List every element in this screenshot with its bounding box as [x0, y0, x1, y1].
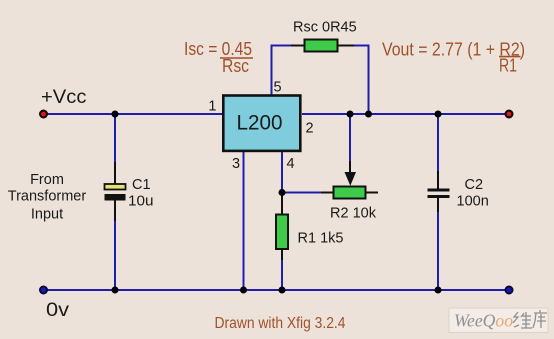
svg-text:Drawn with Xfig 3.2.4: Drawn with Xfig 3.2.4	[215, 315, 346, 332]
wire pin5 to Rsc	[272, 46, 293, 96]
pin 2 label	[306, 121, 314, 137]
svg-text:3: 3	[232, 156, 240, 172]
pin 5 label	[274, 79, 282, 95]
svg-text:0v: 0v	[46, 299, 69, 321]
svg-text:C1: C1	[132, 177, 151, 193]
op-amp regulator U1 L200 body	[223, 96, 300, 151]
pin 3 label	[232, 156, 240, 172]
svg-text:+Vcc: +Vcc	[41, 86, 87, 108]
formula Vout	[382, 39, 525, 76]
wiper arrow into R2	[345, 172, 357, 186]
wire output rail pin2	[302, 113, 509, 115]
wire C1 lead top (black)	[114, 162, 116, 184]
wire pin4 junction to R2	[282, 192, 322, 194]
capacitor C2 top plate	[428, 189, 450, 192]
wire C2 lead top (black)	[437, 171, 439, 189]
node junction pin3 bottom	[240, 287, 247, 294]
svg-text:L200: L200	[237, 112, 283, 135]
node label +Vcc	[41, 86, 87, 108]
terminal 0v right (blue)	[506, 287, 513, 294]
resistor R1 body	[276, 215, 288, 250]
wire C2 branch upper	[437, 114, 439, 172]
wire Rsc left lead (black)	[291, 45, 305, 47]
svg-text:From: From	[30, 172, 64, 188]
wire wiper lead (black)	[349, 161, 351, 176]
node junction Rsc right top	[365, 111, 372, 118]
svg-text:R1: R1	[499, 54, 517, 75]
caption Drawn with Xfig	[215, 315, 346, 332]
wire R1 top lead (black)	[281, 193, 283, 215]
wire C2 branch lower	[437, 212, 439, 290]
pin 1 label	[208, 99, 216, 115]
wire C1 branch lower	[114, 221, 116, 290]
terminal Vout output (red)	[506, 111, 513, 118]
wire pin3 vertical	[243, 152, 245, 290]
formula Isc	[184, 38, 253, 76]
wire R2 right lead (black)	[365, 192, 378, 194]
node junction C1 top	[112, 111, 119, 118]
capacitor C1 top plate (yellow)	[105, 184, 126, 190]
wire R2 left lead (black)	[321, 192, 334, 194]
pin 4 label	[287, 156, 295, 172]
note From Transformer Input	[8, 172, 87, 223]
svg-text:Transformer: Transformer	[8, 189, 87, 205]
wire bottom rail 0v	[43, 289, 509, 291]
wire R1 bottom lead (black)	[281, 249, 283, 261]
svg-text:R1 1k5: R1 1k5	[298, 231, 344, 247]
node junction pin4 R2 R1	[279, 189, 286, 196]
capacitor C2 bottom plate	[428, 195, 450, 198]
wire pin2 drop to R2 wiper	[349, 114, 351, 162]
svg-text:2: 2	[306, 121, 314, 137]
node junction C2 top	[435, 111, 442, 118]
wire R1 to bottom rail	[281, 260, 283, 290]
node junction C1 bottom	[112, 287, 119, 294]
potentiometer R2 body	[334, 187, 366, 199]
svg-text:WeeQoo: WeeQoo	[454, 311, 513, 331]
resistor Rsc value label	[293, 20, 357, 36]
svg-text:C2: C2	[465, 177, 484, 193]
svg-text:1: 1	[208, 99, 216, 115]
node label 0v	[46, 299, 69, 321]
wire Rsc to output rail	[354, 46, 369, 115]
potentiometer R2 label	[330, 206, 377, 222]
terminal +Vcc input (red)	[40, 111, 47, 118]
wire pin4 vertical	[281, 152, 283, 193]
watermark CJK 维库	[513, 310, 547, 328]
svg-text:5: 5	[274, 79, 282, 95]
resistor Rsc body	[305, 40, 338, 52]
wire C1 branch upper	[114, 114, 116, 163]
capacitor C1 bottom plate (black)	[105, 194, 126, 201]
terminal 0v left (blue)	[40, 287, 47, 294]
svg-text:100n: 100n	[457, 194, 489, 210]
capacitor C2 labels	[457, 177, 489, 210]
svg-text:R2 10k: R2 10k	[330, 206, 377, 222]
node junction R1 bottom	[279, 287, 286, 294]
wire C2 lead bottom (black)	[437, 198, 439, 213]
capacitor C1 labels	[128, 177, 154, 210]
svg-text:Input: Input	[31, 207, 63, 223]
svg-text:10u: 10u	[128, 194, 154, 210]
node junction C2 bottom	[435, 287, 442, 294]
wire top rail +Vcc	[43, 113, 222, 115]
svg-text:Rsc: Rsc	[222, 55, 249, 76]
node junction wiper top	[347, 111, 354, 118]
resistor R1 label	[298, 231, 344, 247]
svg-text:4: 4	[287, 156, 295, 172]
svg-text:Rsc 0R45: Rsc 0R45	[293, 20, 357, 36]
watermark WeeQoo box	[449, 308, 548, 333]
wire C1 lead bottom (black)	[114, 200, 116, 222]
wire Rsc right lead (black)	[337, 45, 355, 47]
